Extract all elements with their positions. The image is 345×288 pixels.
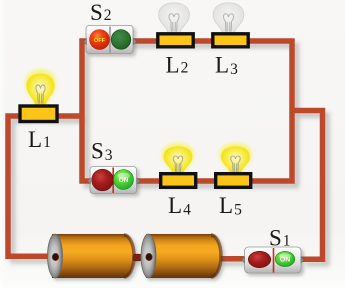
svg-text:L3: L3 — [215, 53, 238, 79]
svg-text:L4: L4 — [168, 193, 191, 219]
S2 red button (OFF, lit) — [89, 29, 110, 50]
S3 left nub — [88, 178, 91, 184]
lamp L4 holder — [161, 174, 196, 188]
svg-text:OFF: OFF — [94, 38, 106, 44]
S3 separator — [112, 168, 114, 194]
S1 left nub — [242, 257, 245, 263]
S3 green button (ON, lit) — [114, 170, 134, 190]
S2 right nub — [134, 38, 137, 44]
S2 separator — [109, 27, 111, 53]
lamp L3 holder — [213, 34, 248, 47]
svg-text:S1: S1 — [269, 226, 291, 251]
svg-text:ON: ON — [280, 257, 291, 264]
lamp L5 bulb (lit) — [219, 143, 252, 173]
lamp L3 bulb (off) — [213, 3, 244, 33]
lamp L2 holder — [158, 34, 193, 47]
S1 separator — [273, 248, 275, 273]
wire: left loop (L1 branch to battery) — [8, 41, 323, 259]
battery B2 — [141, 234, 221, 278]
lamp L1 holder — [20, 106, 57, 122]
S1 green button (ON, lit oval) — [275, 251, 295, 266]
svg-text:S2: S2 — [90, 0, 112, 25]
lamp L4 bulb (lit) — [162, 143, 195, 173]
S1 right nub — [301, 257, 304, 263]
S1 red button (dark oval) — [248, 251, 270, 267]
svg-text:L5: L5 — [219, 193, 242, 219]
switch S2 (open: red OFF lit, green dark) — [86, 26, 133, 54]
switch S1 (closed: red dark, green ON lit) — [245, 247, 302, 273]
svg-text:L1: L1 — [28, 127, 51, 152]
S2 left nub — [84, 38, 87, 44]
battery B1 positive nipple — [133, 254, 142, 261]
S3 red button (dark) — [92, 169, 114, 191]
S3 right nub — [137, 178, 140, 184]
lamp L1 bulb (lit) — [25, 69, 57, 105]
lamp L2 bulb (off) — [159, 3, 190, 33]
svg-text:S3: S3 — [91, 139, 113, 165]
wire: output stub to right vertical down to S1 — [292, 111, 323, 260]
wire: between batteries — [128, 255, 150, 261]
lamp L5 holder — [216, 174, 251, 188]
svg-text:L2: L2 — [166, 53, 189, 78]
battery B1 — [48, 234, 135, 278]
S2 green button (dark) — [111, 30, 131, 50]
switch S3 (closed: red dark, green ON lit) — [90, 167, 137, 194]
svg-text:ON: ON — [119, 177, 129, 184]
wire: battery 2 to switch S1 — [218, 256, 247, 262]
wire: parallel-branch rectangle (top L2/L3 row, right junction, middle L4/L5 row, left junction) — [82, 41, 292, 181]
